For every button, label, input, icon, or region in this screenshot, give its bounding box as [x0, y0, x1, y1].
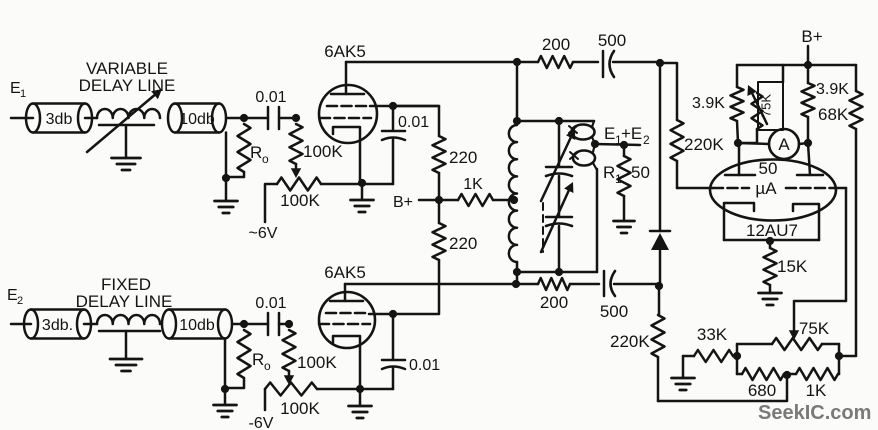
resistor 220K (detector load)	[652, 286, 665, 401]
resistor 200 (bottom)	[516, 278, 599, 290]
V3 grid line (dashed)	[677, 187, 846, 190]
svg-text:R: R	[603, 163, 615, 182]
node E2 input label	[7, 287, 23, 307]
svg-text:100K: 100K	[303, 142, 343, 161]
wire screen to bypass node (V2)	[369, 313, 393, 316]
svg-text:3.9K: 3.9K	[816, 81, 849, 98]
wire rail to transformer	[516, 62, 519, 121]
node junction after 10db (E1)	[240, 114, 248, 122]
resistor Ro (E1)	[226, 124, 251, 177]
svg-text:10db: 10db	[179, 111, 215, 128]
coupling loop 1	[569, 121, 595, 144]
potentiometer 100K (E1)	[277, 178, 321, 191]
resistor 220 (lower)	[433, 223, 446, 260]
svg-text:1: 1	[615, 172, 622, 186]
svg-text:0.01: 0.01	[398, 114, 429, 131]
ground (15K)	[759, 293, 782, 305]
wire E1+E2 output	[595, 144, 640, 145]
node plate rail junction	[513, 58, 521, 66]
label 220K (sum)	[684, 135, 724, 154]
label 15K	[777, 257, 808, 276]
resistor 100K grid (E2)	[283, 330, 296, 371]
resistor 100K grid (E1)	[290, 124, 303, 164]
svg-text:3db.: 3db.	[42, 317, 73, 334]
wire E1 input stub	[11, 117, 33, 120]
label Ro (E1)	[250, 143, 269, 166]
node lower plate junction	[512, 280, 520, 288]
label B+ (mid)	[393, 194, 413, 211]
ground (E1 cathode)	[351, 183, 374, 212]
V1 cathode	[333, 127, 360, 183]
potentiometer 75K	[737, 338, 839, 350]
label DELAY LINE (E1)	[79, 76, 176, 95]
label -6V (E2)	[249, 415, 274, 430]
node grid junction (E2)	[285, 320, 293, 328]
label DELAY LINE (E2)	[76, 292, 173, 311]
wire shield 10db (E1)	[225, 133, 228, 179]
svg-text:0.01: 0.01	[409, 357, 440, 374]
label 1K (screen feed)	[463, 176, 483, 193]
svg-text:1K: 1K	[463, 176, 483, 193]
svg-text:µA: µA	[755, 179, 777, 198]
label 3.9K right	[816, 81, 849, 98]
svg-text:33K: 33K	[697, 325, 728, 344]
svg-text:1: 1	[20, 88, 26, 100]
resistor 3.9K right	[802, 65, 815, 143]
svg-text:~6V: ~6V	[249, 225, 278, 242]
label R1	[603, 163, 622, 186]
gang dashed link	[542, 203, 544, 252]
svg-text:680: 680	[748, 381, 776, 400]
V2 plate	[330, 284, 363, 301]
potentiometer 100K (E2)	[265, 383, 317, 396]
capacitor 0.01 bypass (V1)	[362, 106, 405, 184]
label 12AU7	[746, 221, 798, 240]
wire T1 bottom	[516, 262, 519, 284]
diode CR1	[650, 63, 670, 286]
wiper arrow (E1 pot)	[291, 164, 301, 178]
label 3.9K left	[692, 95, 725, 112]
ground (fixed delay line)	[110, 331, 142, 371]
wire to 220K feed	[660, 63, 677, 120]
label 220 upper	[449, 148, 477, 167]
svg-text:200: 200	[542, 35, 570, 54]
svg-text:B+: B+	[801, 27, 822, 46]
label 75K (pot)	[799, 319, 830, 338]
node sum junction (top right)	[656, 59, 664, 67]
tube 6AK5 V1 envelope	[319, 85, 377, 143]
node R1 junction	[620, 141, 628, 149]
resistor 200 (top)	[517, 56, 598, 68]
svg-text:100K: 100K	[280, 399, 320, 418]
label FIXED	[101, 275, 151, 294]
V1 plate	[331, 62, 364, 94]
label 68K	[818, 105, 849, 124]
wire pot to -6V (E2)	[264, 389, 267, 410]
capacitor 0.01 bypass (V2)	[360, 314, 405, 389]
label 100K pot (E2)	[280, 399, 320, 418]
label 200 (bottom)	[540, 293, 568, 312]
svg-text:2: 2	[17, 295, 23, 307]
variable capacitor C2b	[546, 217, 572, 226]
tube 12AU7 V3 envelope	[710, 160, 836, 221]
node 680/1K junction	[783, 371, 791, 379]
capacitor variable C-top stem	[558, 121, 561, 167]
delay line tap bar	[99, 124, 154, 127]
node B+ rail junction	[804, 61, 812, 69]
watermark SeekIC.com	[758, 402, 871, 424]
node network left	[733, 352, 741, 360]
V3 right cathode	[793, 204, 819, 240]
label Ro (E2)	[252, 350, 271, 373]
resistor 680	[737, 368, 790, 380]
svg-text:A: A	[778, 135, 790, 154]
svg-text:6AK5: 6AK5	[324, 42, 366, 61]
wire V2 plate rail	[345, 283, 516, 286]
wire varicap bottom stem	[558, 226, 561, 272]
label -6V (E1)	[249, 225, 278, 242]
label 100K grid (E1)	[303, 142, 343, 161]
arrow C2b	[541, 182, 573, 252]
label 100K grid (E2)	[297, 353, 337, 372]
svg-text:10db: 10db	[179, 317, 215, 334]
label E1+E2	[604, 124, 650, 147]
wire 10db to C (E2)	[232, 323, 268, 326]
svg-text:6AK5: 6AK5	[324, 263, 366, 282]
label B+ (right)	[801, 27, 822, 46]
resistor 33K	[683, 350, 737, 362]
coupling loop 2	[570, 144, 597, 170]
wire 3db to delay line	[85, 117, 97, 120]
node meter right junction	[804, 139, 812, 147]
wire 220 chain mid	[438, 173, 441, 223]
node junction after 10db (E2)	[240, 320, 248, 328]
label 500 (bottom)	[600, 302, 628, 321]
resistor 1K (feedback)	[790, 368, 839, 380]
svg-text:o: o	[262, 152, 269, 166]
node shield junction (E2)	[221, 385, 229, 393]
node T1 bottom rail junction	[513, 268, 521, 276]
capacitor 0.01 input (E2)	[268, 313, 289, 335]
attenuator 10db (E2)	[162, 310, 232, 339]
capacitor 500 (bottom)	[604, 271, 659, 296]
label 220K (lower)	[610, 332, 650, 351]
svg-text:500: 500	[598, 31, 626, 50]
svg-text:DELAY LINE: DELAY LINE	[76, 292, 173, 311]
svg-text:R: R	[250, 143, 262, 162]
svg-text:0.01: 0.01	[255, 89, 286, 106]
V2 screen grid (dashed)	[326, 312, 369, 315]
wire pot to cathode node (E2)	[317, 388, 360, 391]
svg-text:220: 220	[449, 234, 477, 253]
svg-text:15K: 15K	[777, 257, 808, 276]
svg-text:50: 50	[759, 159, 778, 178]
svg-text:220K: 220K	[684, 135, 724, 154]
node diode bottom junction	[655, 282, 663, 290]
wire network right edge	[838, 344, 841, 374]
variable delay line inductor L1	[97, 109, 160, 118]
label VARIABLE	[86, 59, 168, 78]
node network right	[835, 352, 843, 360]
resistor 3.9K left	[731, 65, 744, 143]
label 50 uA	[755, 159, 777, 198]
capacitor 500 (top)	[598, 51, 660, 77]
wire between varicaps	[558, 176, 561, 217]
svg-text:o: o	[264, 359, 271, 373]
variable capacitor C2a	[546, 167, 572, 176]
wire network left edge	[736, 344, 739, 374]
label 0.01 bypass (V2)	[409, 357, 440, 374]
label 200 (top)	[542, 35, 570, 54]
label 33K	[697, 325, 728, 344]
wire network to 68K leg	[839, 355, 855, 358]
wire E2 input stub	[11, 323, 31, 326]
svg-text:50: 50	[631, 163, 650, 182]
svg-text:3.9K: 3.9K	[692, 95, 725, 112]
transformer coil T1	[509, 125, 517, 262]
meter A	[738, 129, 808, 159]
label 6AK5 (V2)	[324, 263, 366, 282]
ground (R1)	[614, 221, 635, 233]
wire 220K to V3 grid	[676, 161, 679, 188]
wire cathode rail	[724, 239, 819, 242]
svg-text:3db: 3db	[46, 111, 73, 128]
node transformer top	[513, 117, 521, 125]
label 680	[748, 381, 776, 400]
svg-text:E: E	[604, 124, 615, 143]
node cathode rail center	[766, 237, 774, 245]
svg-text:-6V: -6V	[249, 415, 274, 430]
resistor 220 (upper)	[433, 136, 446, 173]
rheostat 75K (balance)	[738, 65, 783, 143]
V3 left cathode	[724, 203, 754, 240]
svg-text:SeekIC.com: SeekIC.com	[758, 402, 871, 424]
fixed delay line inductor L2	[97, 315, 160, 324]
label 220 lower	[449, 234, 477, 253]
node meter left junction	[734, 139, 742, 147]
V1 screen grid (dashed)	[327, 105, 370, 108]
node 220 chain junction	[435, 196, 443, 204]
label 50 (R1)	[631, 163, 650, 182]
wire B+ rail	[737, 64, 856, 67]
ground (E2 cathode)	[349, 389, 372, 418]
node T1 center tap	[510, 196, 518, 204]
V1 control grid (dashed)	[320, 117, 371, 120]
wire 3db to fixed delay	[84, 323, 97, 326]
label 0.01 (E2)	[255, 295, 286, 312]
wire V1 plate rail	[346, 61, 517, 64]
node screen junction (V1)	[389, 102, 397, 110]
node varicap top	[555, 117, 563, 125]
svg-text:68K: 68K	[818, 105, 849, 124]
label 0.01 bypass (V1)	[398, 114, 429, 131]
wire screen to bypass node (V1)	[370, 105, 439, 108]
delay line tap bar (E2)	[99, 330, 160, 333]
svg-text:+E: +E	[621, 124, 642, 143]
label 0.01 (E1)	[255, 89, 286, 106]
node cathode junction (E1)	[358, 179, 366, 187]
wiper arrow 75K balance	[747, 85, 767, 124]
wire box right edge	[596, 169, 599, 272]
resistor 15K	[764, 241, 777, 293]
arrow C2a	[541, 129, 575, 201]
wiper arrow (E2 pot)	[284, 371, 294, 385]
svg-text:500: 500	[600, 302, 628, 321]
label 500 (top)	[598, 31, 626, 50]
label 100K pot (E1)	[280, 191, 320, 210]
node varicap bottom	[555, 268, 563, 276]
variable arrow (L1)	[87, 89, 162, 152]
wire box bottom rail	[517, 271, 597, 274]
svg-text:75K: 75K	[799, 319, 830, 338]
resistor 68K	[850, 65, 863, 356]
wire shield 10db (E2)	[224, 339, 227, 390]
svg-text:2: 2	[643, 133, 650, 147]
wire 33K to ground	[682, 356, 685, 378]
wire 10db to C1	[226, 117, 268, 120]
node loop junction	[591, 140, 599, 148]
resistor 220K (sum to grid)	[671, 120, 684, 161]
label 1K (feedback)	[806, 381, 827, 400]
svg-text:1K: 1K	[806, 381, 827, 400]
svg-text:100K: 100K	[297, 353, 337, 372]
attenuator 10db (E1)	[168, 104, 226, 133]
wire V3 right grid feedback	[794, 188, 846, 301]
ground (E2 shield)	[214, 389, 237, 417]
svg-text:R: R	[252, 350, 264, 369]
V2 control grid (dashed)	[319, 323, 370, 326]
V3 right plate	[797, 143, 823, 175]
svg-text:220: 220	[449, 148, 477, 167]
wire 1K to tap	[493, 199, 514, 202]
svg-text:B+: B+	[393, 194, 413, 211]
wiper arrow 75K	[789, 302, 799, 340]
wire transformer top rail	[517, 120, 594, 123]
svg-text:DELAY LINE: DELAY LINE	[79, 76, 176, 95]
node E1 input label	[10, 80, 26, 100]
ground (variable delay line)	[112, 125, 141, 170]
resistor 1K (screen feed)	[458, 194, 493, 206]
wire B+ to 1K	[419, 199, 458, 202]
node grid junction (E1)	[292, 114, 300, 122]
wire 220 chain bottom	[393, 260, 439, 314]
wire pot to cathode node (E1)	[321, 183, 362, 186]
wire pot to -6V (E1)	[265, 184, 277, 222]
node shield junction (E1)	[222, 174, 230, 182]
wire B+ stub	[807, 46, 810, 65]
svg-text:0.01: 0.01	[255, 295, 286, 312]
V3 left plate	[725, 143, 755, 175]
ground (33K)	[672, 378, 695, 390]
attenuator 3db (E2)	[24, 310, 91, 339]
label 6AK5 (V1)	[324, 42, 366, 61]
tube 6AK5 V2 envelope	[319, 292, 375, 348]
wire 220 chain top	[393, 106, 439, 136]
capacitor 0.01 input (E1)	[258, 107, 296, 129]
ground (E1 shield)	[215, 178, 238, 213]
attenuator 3db (E1)	[26, 104, 92, 133]
V2 cathode	[333, 336, 360, 389]
svg-text:12AU7: 12AU7	[746, 221, 798, 240]
node cathode junction (E2)	[356, 385, 364, 393]
label 75K rotated	[759, 94, 774, 117]
resistor R1 50	[618, 145, 631, 221]
svg-text:100K: 100K	[280, 191, 320, 210]
svg-text:200: 200	[540, 293, 568, 312]
wire bottom rail	[658, 375, 787, 401]
resistor Ro (E2)	[226, 330, 251, 388]
svg-text:220K: 220K	[610, 332, 650, 351]
node screen junction (V2)	[389, 310, 397, 318]
